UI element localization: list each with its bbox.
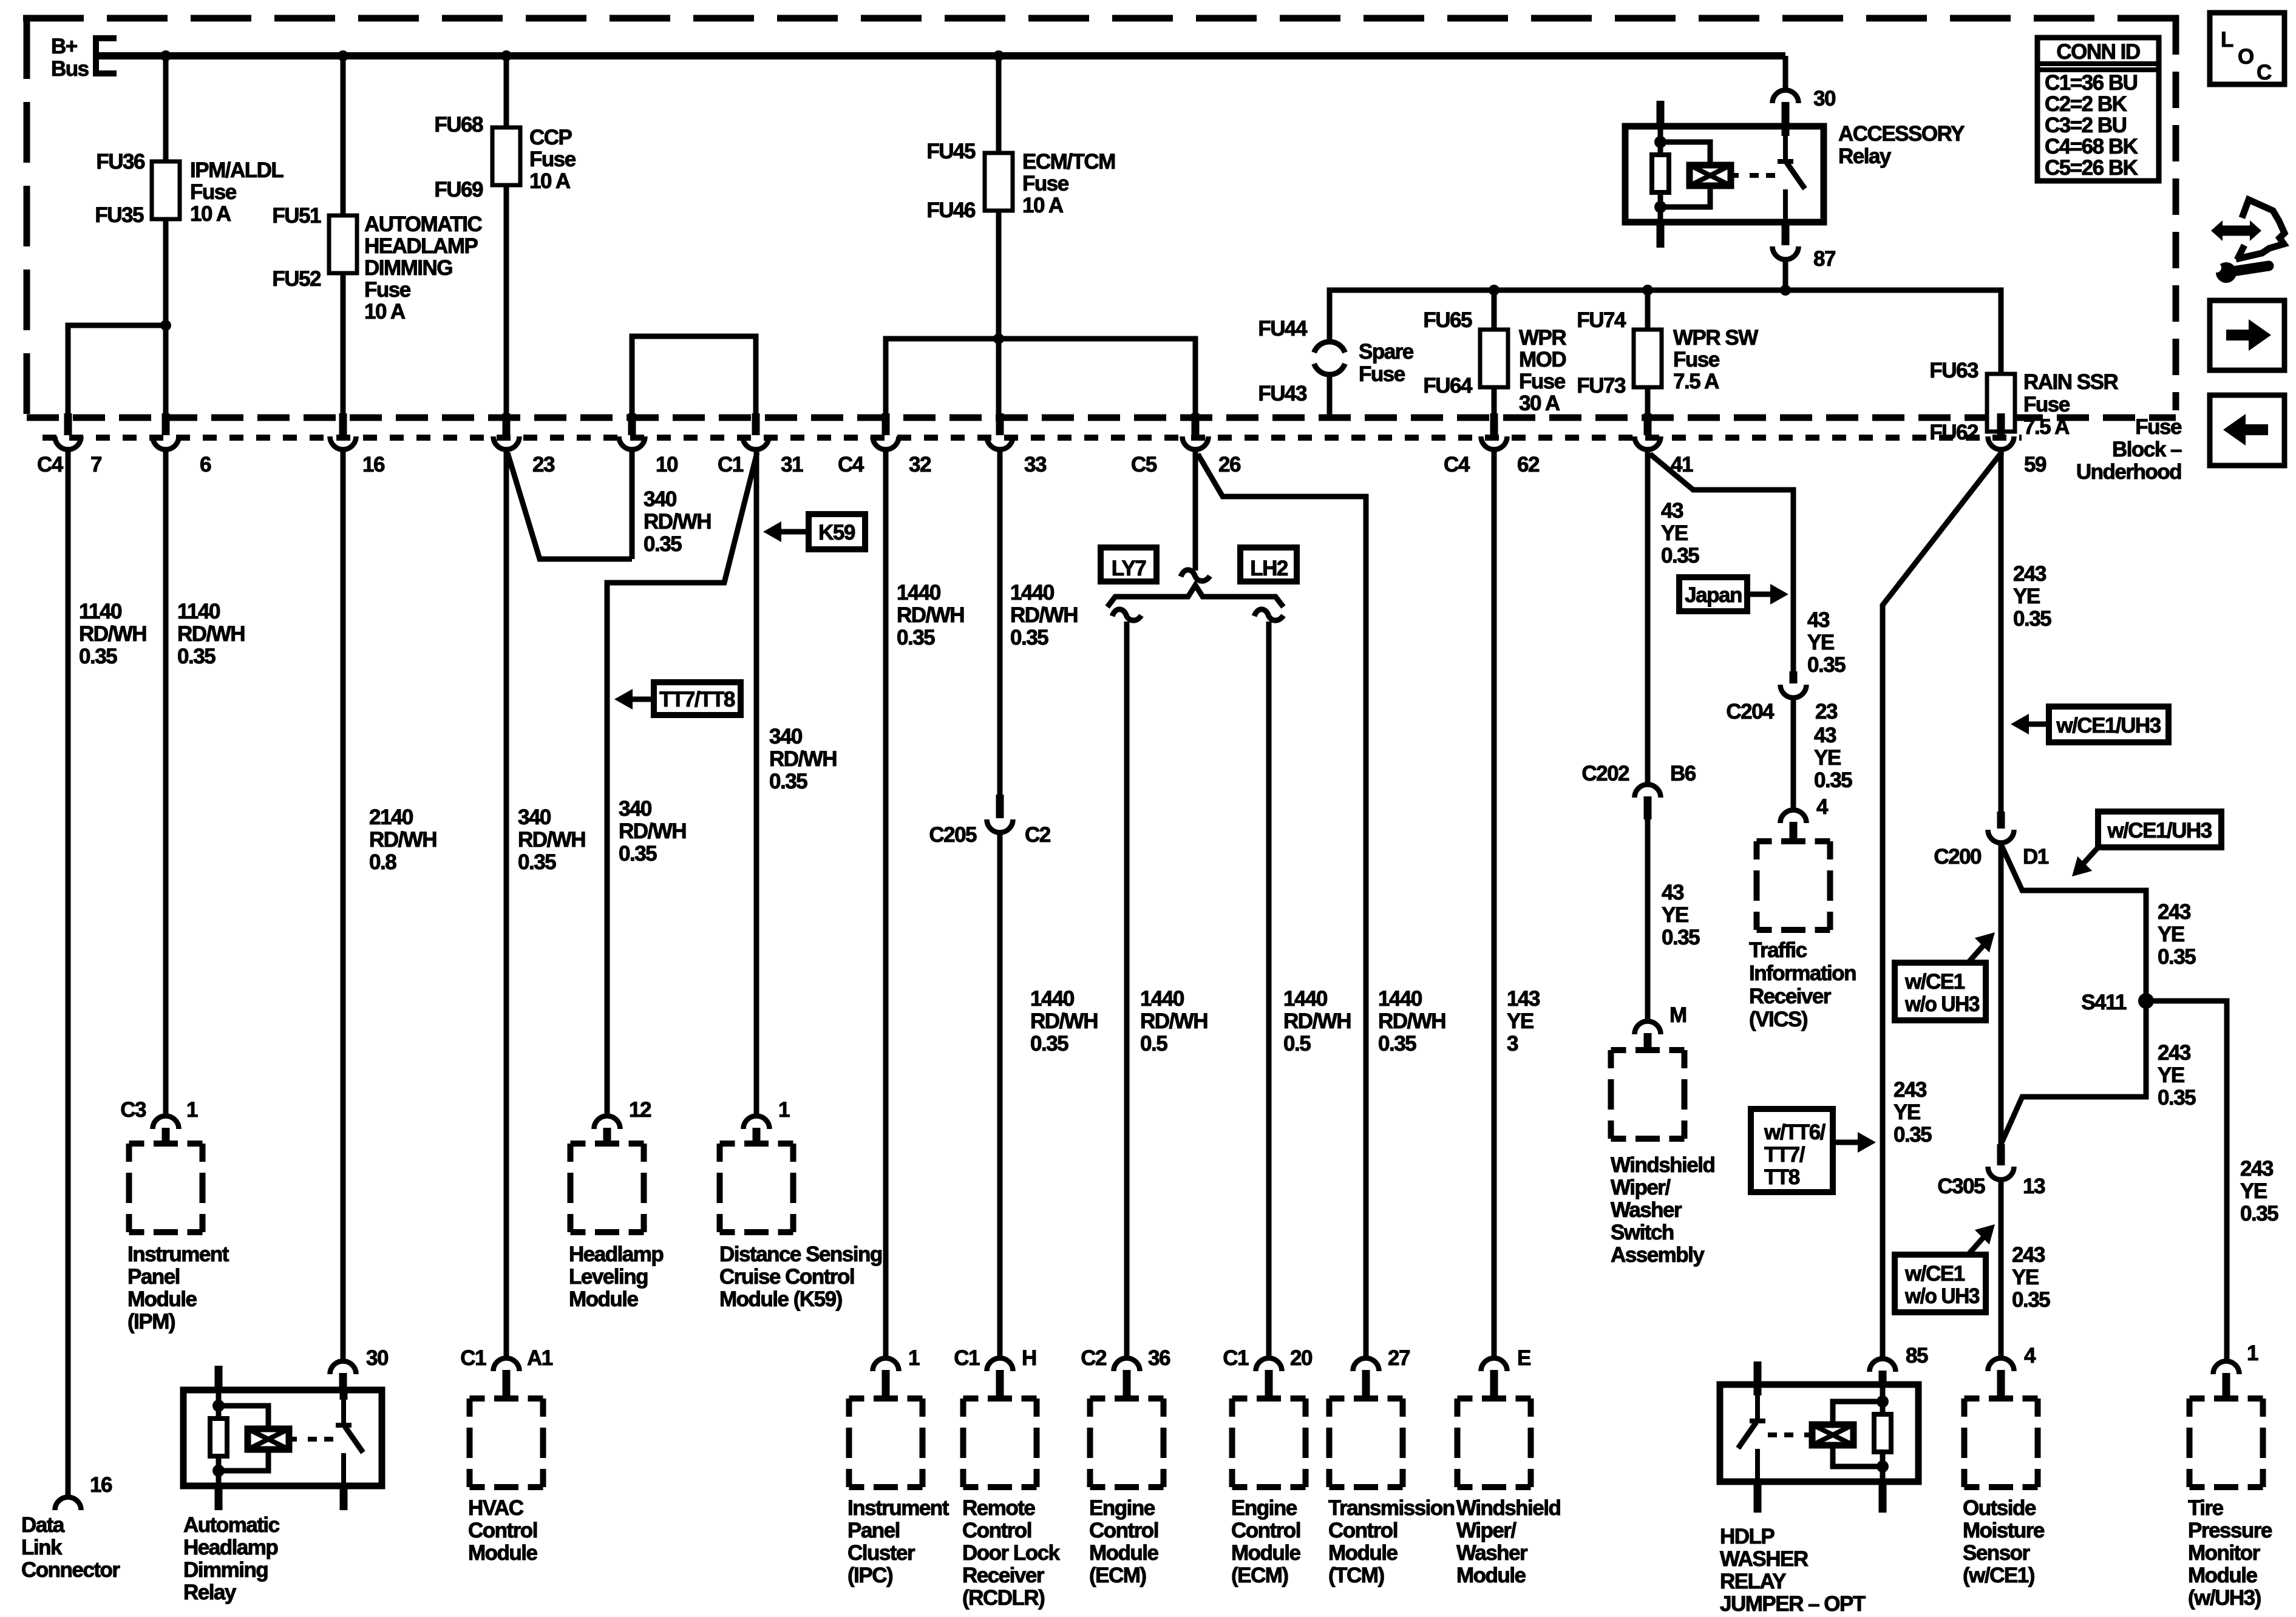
svg-text:C1: C1 [1223,1346,1249,1370]
svg-text:Module: Module [127,1287,197,1311]
wire pin C5/26 down to engine splice [1193,450,1198,571]
svg-text:YE: YE [1662,903,1688,927]
icon left-arrow box [2210,395,2284,466]
svg-text:HEADLAMP: HEADLAMP [364,234,478,258]
svg-text:16: 16 [362,453,385,476]
wire FU68 column [504,56,509,129]
svg-text:Distance Sensing: Distance Sensing [719,1242,882,1266]
module Headlamp Leveling box [571,1144,644,1232]
svg-text:Underhood: Underhood [2076,460,2181,484]
spare fuse FU44/FU43 [1314,342,1345,353]
label Tire Pressure Monitor Module (w/UH3) [2188,1496,2272,1610]
svg-text:(ECM): (ECM) [1089,1564,1146,1587]
icon LOC box [2210,13,2284,84]
svg-text:Fuse: Fuse [529,147,576,171]
label 340 RD/WH 0.35 (pin10) [644,487,711,556]
connector pin C4/7 at x=112 [37,413,101,476]
label WPR MOD Fuse 30 A [1519,326,1566,415]
wire pin41 down to C202 (43 YE) [1645,450,1651,783]
svg-text:YE: YE [2013,585,2040,608]
svg-text:340: 340 [619,797,652,821]
wire WPR MOD pin62 to wiper module (143 YE 3) [1492,450,1497,1357]
engine option brace [1107,585,1283,607]
label IPM/ALDL Fuse 10 A [190,158,284,226]
svg-text:3: 3 [1507,1032,1518,1056]
icon right-arrow box [2210,300,2284,370]
module IPC box [849,1398,923,1487]
svg-text:36: 36 [1148,1346,1170,1370]
svg-text:C2=2 BK: C2=2 BK [2045,92,2127,116]
connector pin 59 at x=3296 [1988,413,2046,476]
svg-text:HVAC: HVAC [468,1496,524,1520]
svg-text:Data: Data [21,1513,65,1537]
svg-text:0.35: 0.35 [177,645,216,668]
fuse FU63/FU62 RAIN SSR [1987,374,2015,432]
wire C200/D1 to S411 (243 YE) [2001,844,2146,1001]
svg-text:RD/WH: RD/WH [369,828,436,852]
label 43 YE 0.35 (pin41) [1661,499,1699,568]
connector 1 (tire pressure monitor) [2213,1361,2240,1375]
wire C305 to outside moisture sensor [1999,1180,2004,1357]
svg-text:Outside: Outside [1963,1496,2036,1520]
label HVAC Control Module [468,1496,538,1565]
svg-text:FU45: FU45 [926,140,976,163]
svg-text:FU36: FU36 [96,150,145,174]
fuse block connector face dashed line [42,435,2022,441]
svg-text:(w/CE1): (w/CE1) [1963,1564,2034,1587]
label Fuse Block - Underhood [2076,415,2182,484]
svg-text:43: 43 [1814,724,1836,747]
svg-text:27: 27 [1388,1346,1410,1370]
wire pin59 down to C200 (243 YE) [1999,450,2004,812]
svg-text:Cluster: Cluster [847,1541,915,1565]
svg-text:O: O [2238,45,2254,69]
svg-text:RD/WH: RD/WH [769,747,837,771]
module Windshield Wiper/Washer Switch Assembly box [1611,1050,1685,1139]
svg-text:Washer: Washer [1456,1541,1528,1565]
svg-text:Headlamp: Headlamp [183,1536,277,1559]
svg-text:43: 43 [1807,608,1830,632]
connector 85 (HDLP washer relay) [1870,1359,1896,1372]
svg-text:C4: C4 [1444,453,1470,476]
svg-text:C205: C205 [929,823,977,847]
fuse block border right [2173,18,2179,410]
wire pin23 branch diagonal to pin10 wire [508,453,632,559]
svg-text:FU62: FU62 [1929,421,1978,444]
boxed label w/CE1/UH3 (second) with arrow [2065,812,2221,884]
svg-text:Fuse: Fuse [1022,172,1069,195]
svg-text:1440: 1440 [897,581,941,605]
svg-text:IPM/ALDL: IPM/ALDL [190,158,284,182]
svg-text:0.5: 0.5 [1140,1032,1167,1056]
svg-text:1140: 1140 [177,600,220,623]
connector 1 (DSCC) [744,1116,770,1130]
svg-text:H: H [1022,1346,1036,1370]
label 340 RD/WH 0.35 (headlamp leveling) [619,797,686,866]
connector pin 16 at x=565 [330,413,385,476]
svg-text:10: 10 [656,453,678,476]
label 1440 RD/WH 0.35 (TCM) [1378,987,1445,1056]
node S411 [2138,993,2154,1009]
svg-text:7.5 A: 7.5 A [2023,415,2070,439]
svg-text:0.35: 0.35 [1814,768,1852,792]
relay guts HDLP (mirrored) [1738,1386,1891,1482]
wire DSCC column (340 RD/WH) [754,450,759,1116]
svg-text:Receiver: Receiver [962,1564,1045,1587]
label Transmission Control Module (TCM) [1328,1496,1455,1587]
svg-text:C: C [2257,61,2272,84]
label 243 YE 0.35 (S411 upper) [2158,900,2196,969]
svg-text:RD/WH: RD/WH [518,828,585,852]
boxed label w/TT6/TT7/TT8 with arrow [1751,1109,1876,1192]
pin stub switch bottom [340,1486,348,1510]
connector C1/H (RCDLR) [987,1358,1013,1372]
svg-text:30: 30 [366,1346,389,1370]
fuse FU65/FU64 WPR MOD [1480,330,1508,387]
svg-text:FU46: FU46 [926,198,976,222]
svg-text:FU52: FU52 [272,267,321,291]
wire RCDLR column lower [997,833,1003,1357]
label Windshield Wiper/Washer Module [1456,1496,1560,1587]
pin stub switch bottom [1754,1482,1762,1513]
label 243 YE 0.35 (HDLP feed) [1894,1078,1932,1147]
svg-text:Control: Control [1328,1519,1398,1542]
connector 16 (data link connector end) [55,1497,81,1511]
wire pin59 branch diagonal to HDLP washer relay feed [1883,452,2002,1358]
svg-text:1440: 1440 [1010,581,1055,605]
svg-text:DIMMING: DIMMING [364,256,452,280]
svg-text:Panel: Panel [127,1265,180,1289]
relay guts AHD (coil, resistor, switch) [210,1390,363,1486]
svg-text:w/CE1/UH3: w/CE1/UH3 [2056,714,2161,737]
fuse FU45/FU46 ECM/TCM [985,153,1013,211]
svg-text:20: 20 [1290,1346,1313,1370]
svg-text:Transmission: Transmission [1328,1496,1455,1520]
connector 4 (VICS) [1781,810,1807,824]
svg-text:B6: B6 [1670,762,1696,785]
svg-text:Instrument: Instrument [847,1496,949,1520]
svg-text:Monitor: Monitor [2188,1541,2261,1565]
svg-text:Sensor: Sensor [1963,1541,2031,1565]
svg-text:Pressure: Pressure [2188,1519,2272,1542]
svg-text:YE: YE [1807,631,1834,654]
label 43 YE 0.35 (branch) [1807,608,1846,677]
svg-text:C1: C1 [460,1346,486,1370]
svg-text:E: E [1517,1346,1530,1370]
svg-text:Switch: Switch [1611,1221,1674,1244]
svg-text:Control: Control [468,1519,537,1542]
svg-text:(RCDLR): (RCDLR) [962,1586,1044,1610]
svg-text:0.35: 0.35 [2240,1202,2278,1225]
svg-text:C2: C2 [1081,1346,1107,1370]
B+ bus bracket [96,38,117,73]
label Instrument Panel Cluster (IPC) [847,1496,949,1587]
svg-text:C4=68 BK: C4=68 BK [2045,135,2138,158]
boxed label w/CE1 w/o UH3 with arrow [1895,925,2002,1020]
svg-text:Japan: Japan [1685,583,1742,607]
label Instrument Panel Module (IPM) [127,1242,229,1334]
svg-text:FU73: FU73 [1577,374,1626,398]
svg-text:7: 7 [90,453,101,476]
wire C202 to wiper switch (43 YE) [1645,819,1651,1021]
fuse block border left [24,18,30,414]
svg-text:0.35: 0.35 [1662,926,1700,949]
svg-text:(IPM): (IPM) [127,1310,175,1334]
svg-text:Fuse: Fuse [364,278,411,302]
node: bus taps [160,50,171,61]
svg-text:Windshield: Windshield [1456,1496,1560,1520]
svg-text:D1: D1 [2023,845,2049,869]
connector E (windshield wiper/washer module) [1481,1358,1507,1372]
svg-text:2140: 2140 [369,805,413,829]
label 1440 RD/WH 0.5 (LH2) [1283,987,1351,1056]
wire accessory feed bus [1330,290,2001,382]
wire S411 to tire pressure monitor (243 YE) [2146,1001,2227,1360]
svg-text:0.35: 0.35 [619,842,657,866]
svg-text:Windshield: Windshield [1611,1153,1714,1177]
boxed label w/CE1 w/o UH3 (second) with arrow [1895,1217,2002,1312]
svg-text:Assembly: Assembly [1611,1243,1705,1267]
wire C200/D1 straight down to C305 (243 YE) [1999,844,2004,1145]
svg-text:1: 1 [2247,1341,2258,1365]
svg-text:C202: C202 [1581,762,1629,785]
connector C200/D1 inline [1997,812,2005,829]
svg-text:(IPC): (IPC) [847,1564,892,1587]
module ECM box (C1) [1232,1398,1306,1487]
wire S411 down to C305 (243 YE) [2001,1001,2146,1144]
wire jumper pin7 to FU36 output [68,325,166,415]
svg-text:RD/WH: RD/WH [619,819,686,843]
svg-text:S411: S411 [2081,991,2127,1014]
svg-text:1: 1 [778,1098,790,1122]
module RCDLR box [963,1398,1037,1487]
svg-text:1440: 1440 [1030,987,1075,1011]
fuse FU51/FU52 Automatic Headlamp Dimming [329,215,357,273]
connector C1/A1 (HVAC) [494,1358,520,1372]
svg-text:23: 23 [1815,700,1838,724]
boxed label w/CE1/UH3 with arrow [2011,707,2169,742]
svg-text:RD/WH: RD/WH [1283,1009,1351,1033]
svg-text:Door Lock: Door Lock [962,1541,1061,1565]
svg-text:Receiver: Receiver [1749,985,1832,1008]
svg-text:C3: C3 [120,1098,146,1122]
svg-text:62: 62 [1517,453,1540,476]
wire AHD relay column (2140 RD/WH) [341,450,346,1361]
svg-text:w/o UH3: w/o UH3 [1904,1284,1980,1308]
wire FU51 column [341,56,346,217]
svg-text:Washer: Washer [1611,1198,1682,1222]
label Outside Moisture Sensor (w/CE1) [1963,1496,2045,1587]
wire FU45 column [996,56,1002,154]
svg-text:MOD: MOD [1519,348,1566,371]
svg-text:Remote: Remote [962,1496,1035,1520]
svg-text:TT7/TT8: TT7/TT8 [659,688,735,711]
fuse FU74/FU73 WPR SW [1634,330,1662,387]
svg-text:1: 1 [908,1346,920,1370]
svg-text:0.35: 0.35 [769,770,807,793]
svg-text:Instrument: Instrument [127,1242,229,1266]
relay guts ACCESSORY (coil, resistor, switch) [1652,126,1805,222]
connector 4 (outside moisture sensor) [1988,1358,2014,1372]
svg-text:Control: Control [1231,1519,1300,1542]
B+ bus wire [96,52,1785,59]
svg-text:WPR SW: WPR SW [1673,326,1758,350]
svg-text:YE: YE [1507,1009,1533,1033]
svg-text:w/CE1: w/CE1 [1904,1262,1965,1286]
wire WPR SW column [1645,290,1651,331]
svg-text:Wiper/: Wiper/ [1611,1176,1671,1199]
svg-text:FU63: FU63 [1929,359,1978,382]
svg-text:243: 243 [2158,900,2191,924]
boxed label Japan with arrow [1679,577,1788,611]
svg-text:Fuse: Fuse [1519,370,1566,393]
svg-text:0.35: 0.35 [897,626,935,649]
splice break LH2 branch [1254,609,1283,620]
svg-text:0.35: 0.35 [1807,653,1846,677]
svg-text:26: 26 [1218,453,1241,476]
svg-text:Module: Module [1231,1541,1301,1565]
wire B+ bus to relay pin 30 [1783,56,1788,89]
svg-text:Traffic: Traffic [1749,938,1807,962]
wire data link connector (1140 RD/WH) [66,450,71,1497]
svg-text:FU68: FU68 [434,113,483,137]
label 2140 RD/WH 0.8 [369,805,436,874]
svg-text:143: 143 [1507,987,1540,1011]
svg-text:243: 243 [2158,1041,2191,1065]
label 1140 RD/WH 0.35 (pin6) [177,600,245,668]
svg-text:Leveling: Leveling [569,1265,648,1289]
label Remote Control Door Lock Receiver (RCDLR) [962,1496,1061,1610]
svg-text:FU69: FU69 [434,178,483,202]
svg-text:ACCESSORY: ACCESSORY [1838,122,1965,146]
svg-text:16: 16 [90,1473,112,1497]
label 1440 RD/WH 0.35 (pin33) [1010,581,1078,649]
svg-text:1: 1 [186,1098,198,1122]
label WPR SW Fuse 7.5 A [1673,326,1758,393]
svg-text:Engine: Engine [1089,1496,1155,1520]
svg-text:10 A: 10 A [364,300,406,324]
svg-text:Module: Module [468,1541,538,1565]
svg-text:(VICS): (VICS) [1749,1008,1807,1031]
fuse block border corner top-right [2143,18,2176,49]
svg-text:C4: C4 [37,453,64,476]
connector 27 (TCM) [1353,1358,1379,1372]
svg-text:Fuse: Fuse [1359,362,1405,386]
module Outside Moisture Sensor box [1965,1398,2038,1487]
svg-text:Fuse: Fuse [1673,348,1720,371]
boxed label LY7 [1101,547,1156,581]
svg-text:1140: 1140 [79,600,122,623]
svg-text:RD/WH: RD/WH [1140,1009,1207,1033]
svg-text:Tire: Tire [2188,1496,2224,1520]
svg-text:32: 32 [909,453,931,476]
pin stub switch top [1754,1361,1762,1385]
module Tire Pressure Monitor box [2190,1398,2263,1487]
svg-text:0.8: 0.8 [369,850,396,874]
connector pin C5/26 at x=1969 [1131,413,1241,476]
svg-text:w/TT6/: w/TT6/ [1764,1120,1826,1144]
svg-text:L: L [2221,28,2233,52]
CONN ID table [2037,38,2159,181]
pin stub coil top [215,1366,223,1390]
connector pin 33 at x=1647 [987,413,1047,476]
svg-text:Module: Module [1456,1564,1526,1587]
svg-text:Wiper/: Wiper/ [1456,1519,1517,1542]
svg-text:YE: YE [2158,1063,2184,1087]
svg-text:RD/WH: RD/WH [1378,1009,1445,1033]
svg-text:340: 340 [518,805,551,829]
wire pin26 branch to TCM (1440 RD/WH) [1198,454,1366,1357]
svg-text:0.35: 0.35 [1661,544,1699,568]
label 143 YE 3 [1507,987,1540,1056]
label CCP Fuse 10 A [529,126,576,193]
module TCM box [1330,1398,1403,1487]
label RAIN SSR Fuse 7.5 A [2023,370,2118,439]
svg-text:Moisture: Moisture [1963,1519,2045,1542]
connector C305/13 inline [1997,1144,2005,1165]
relay box Automatic Headlamp Dimming [183,1390,382,1486]
svg-text:1440: 1440 [1283,987,1328,1011]
module DSCC box [720,1144,793,1232]
svg-text:FU64: FU64 [1423,374,1473,398]
svg-text:RD/WH: RD/WH [897,603,964,627]
svg-text:87: 87 [1813,247,1835,271]
svg-text:Information: Information [1749,961,1856,985]
label 1140 RD/WH 0.35 (pin7) [79,600,146,668]
connector C202/B6 inline [1635,785,1661,798]
wire pin10 stub down [630,450,635,559]
svg-text:Headlamp: Headlamp [569,1242,663,1266]
wire jumper pin32/pin26 to ECM/TCM fuse [886,339,1195,415]
label B+ Bus [51,35,89,81]
node feed taps [1489,285,1500,296]
svg-text:Bus: Bus [51,57,89,81]
module Windshield Wiper/Washer Module box [1458,1398,1531,1487]
svg-text:M: M [1669,1003,1686,1027]
svg-text:TT8: TT8 [1764,1165,1800,1189]
label Traffic Information Receiver (VICS) [1749,938,1856,1031]
label 243 YE 0.35 (pin59) [2013,562,2051,631]
svg-text:Dimming: Dimming [183,1558,268,1582]
label 1440 RD/WH 0.35 (IPC) [897,581,964,649]
label Automatic Headlamp Dimming Relay [183,1513,280,1604]
svg-text:0.35: 0.35 [2013,607,2051,631]
svg-text:Control: Control [1089,1519,1158,1542]
label Engine Control Module (ECM) [1231,1496,1301,1587]
svg-text:C204: C204 [1726,700,1775,724]
svg-text:C4: C4 [838,453,864,476]
label 243 YE 0.35 (OMS) [2012,1243,2050,1312]
svg-text:TT7/: TT7/ [1764,1143,1805,1167]
label Engine Control Module (ECM) [1089,1496,1159,1587]
svg-text:(ECM): (ECM) [1231,1564,1288,1587]
boxed label TT7/TT8 with arrow [614,682,741,715]
svg-text:0.35: 0.35 [2158,1086,2196,1110]
svg-text:LH2: LH2 [1250,557,1288,580]
svg-text:C1=36 BU: C1=36 BU [2045,71,2138,95]
svg-text:1440: 1440 [1378,987,1422,1011]
svg-text:0.35: 0.35 [644,532,682,556]
label HDLP WASHER RELAY JUMPER - OPT [1720,1525,1866,1616]
svg-text:WASHER: WASHER [1720,1547,1809,1571]
wire IPC column (1440 RD/WH) [883,450,889,1357]
svg-text:Automatic: Automatic [183,1513,280,1537]
svg-text:FU35: FU35 [95,203,144,227]
svg-text:LY7: LY7 [1112,557,1146,580]
pin stub coil top [1657,101,1665,126]
svg-text:C2: C2 [1025,823,1051,847]
svg-text:YE: YE [1814,746,1841,770]
